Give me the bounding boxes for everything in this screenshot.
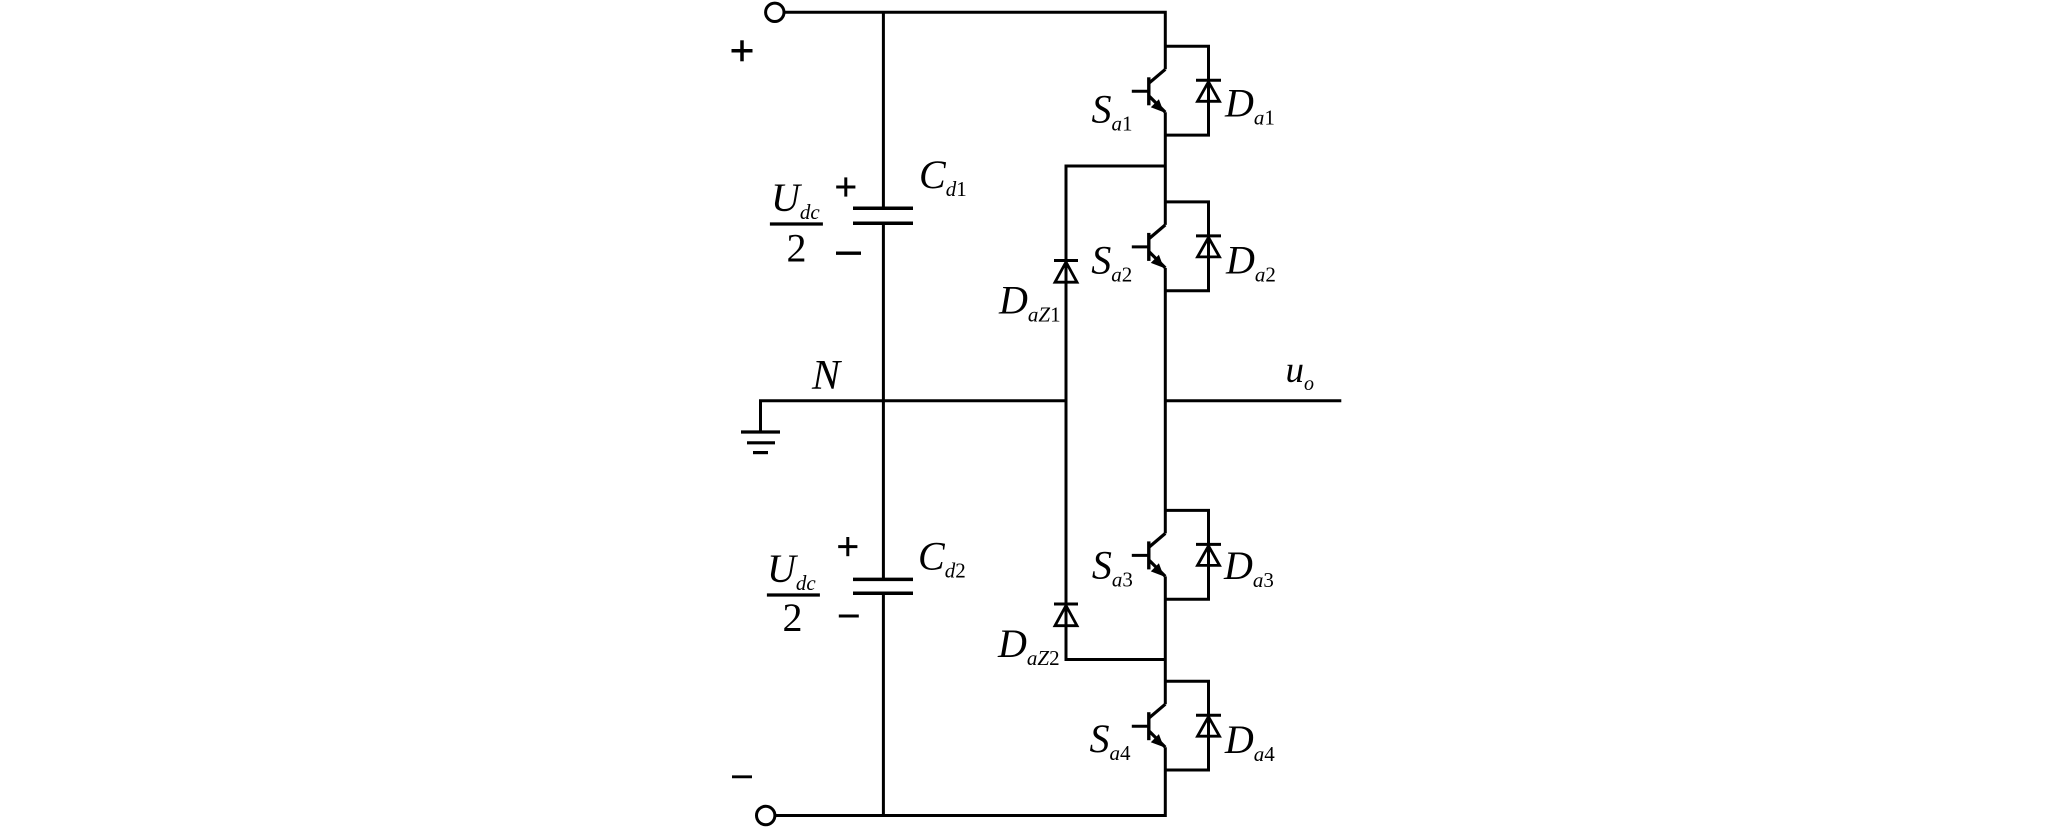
wire Da2 branch [1165, 202, 1208, 291]
svg-text:Da2: Da2 [1225, 238, 1276, 287]
svg-text:DaZ2: DaZ2 [997, 621, 1060, 670]
svg-text:Da3: Da3 [1223, 543, 1274, 592]
svg-text:N: N [811, 353, 842, 399]
svg-text:Cd2: Cd2 [918, 534, 966, 583]
diode Da4 [1196, 714, 1221, 717]
negative terminal [757, 806, 775, 824]
wire N bus and ground stub [761, 401, 1067, 432]
label − negative rail [732, 775, 752, 778]
positive terminal P [766, 3, 784, 21]
transistor Sa4 [1132, 704, 1166, 747]
label − Cd2 polarity [839, 615, 859, 618]
capacitor Cd1 [853, 206, 913, 210]
label + positive rail [732, 49, 753, 53]
wire Da4 branch [1165, 681, 1208, 770]
label − Cd1 polarity [836, 252, 861, 255]
svg-text:Udc: Udc [767, 546, 816, 595]
wire output node [1165, 399, 1341, 402]
transistor Sa1 [1132, 69, 1166, 112]
svg-text:Cd1: Cd1 [919, 152, 967, 201]
transistor Sa3 [1132, 533, 1166, 576]
svg-text:Sa4: Sa4 [1090, 716, 1132, 765]
diode Da1 [1196, 79, 1221, 82]
wire clamp top junction to clamp branch [1066, 166, 1165, 660]
wire capacitor column lower [882, 595, 885, 816]
wire main column Sa2 emitter to Sa3 collector [1164, 268, 1167, 534]
svg-text:Sa3: Sa3 [1092, 542, 1133, 591]
label + Cd1 polarity [836, 186, 855, 189]
transistor Sa2 [1132, 225, 1166, 268]
svg-text:uo: uo [1286, 350, 1315, 395]
wire capacitor column middle [882, 225, 885, 578]
label + Cd2 polarity [838, 545, 857, 548]
wire capacitor column upper [882, 12, 885, 207]
svg-text:DaZ1: DaZ1 [998, 278, 1061, 327]
diode Da3 [1196, 543, 1221, 546]
capacitor Cd2 [853, 578, 913, 582]
ground [741, 430, 780, 433]
wire top bus to Sa1 collector [784, 12, 1165, 69]
svg-text:Da4: Da4 [1224, 717, 1275, 766]
wire Da1 branch [1165, 46, 1208, 135]
clamp diode DaZ1 [1054, 259, 1078, 262]
wire main column Sa1 emitter to Sa2 collector [1164, 112, 1167, 225]
diode Da2 [1196, 234, 1221, 237]
wire main column Sa3 emitter to Sa4 collector [1164, 576, 1167, 704]
wire bottom bus to Sa4 emitter [775, 747, 1165, 815]
svg-text:Da1: Da1 [1224, 81, 1275, 130]
svg-text:2: 2 [787, 226, 807, 271]
svg-text:Sa2: Sa2 [1091, 238, 1132, 287]
svg-text:Sa1: Sa1 [1092, 87, 1133, 136]
clamp diode DaZ2 [1054, 603, 1078, 606]
svg-text:Udc: Udc [771, 175, 820, 224]
wire Da3 branch [1165, 510, 1208, 599]
svg-text:2: 2 [783, 595, 803, 640]
